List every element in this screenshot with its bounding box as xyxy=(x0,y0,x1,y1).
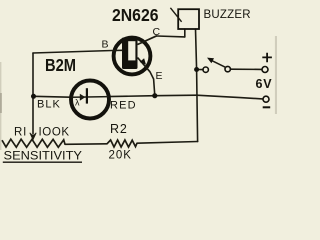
svg-text:BUZZER: BUZZER xyxy=(204,9,251,21)
svg-text:B2M: B2M xyxy=(45,55,76,75)
svg-text:RED: RED xyxy=(110,100,137,112)
underline of SENSITIVITY xyxy=(3,161,82,163)
wire: bottom rail from corner to R2 xyxy=(137,142,198,144)
photocell cell triangle xyxy=(80,94,86,101)
photocell B2M circle xyxy=(71,81,109,119)
svg-text:SENSITIVITY: SENSITIVITY xyxy=(4,151,83,163)
switch contact 1 xyxy=(203,67,208,72)
scan smudge left edge xyxy=(0,62,1,150)
svg-text:λ: λ xyxy=(75,98,80,108)
minus sign xyxy=(263,106,271,108)
wire: buzzer right lead / right vertical rail xyxy=(196,29,198,142)
transistor collector lead xyxy=(138,36,158,45)
svg-text:2N626: 2N626 xyxy=(112,5,159,25)
battery plus terminal xyxy=(262,67,268,73)
wire: emitter lead down from transistor xyxy=(150,72,155,96)
transistor base lead xyxy=(113,49,123,51)
photocell internal wire xyxy=(72,96,109,99)
svg-text:R2: R2 xyxy=(110,122,128,136)
plus sign xyxy=(262,53,272,63)
potentiometer wiper arrow of R1 xyxy=(30,133,36,140)
buzzer armature line xyxy=(170,8,181,22)
wire: switch to plus terminal xyxy=(231,68,262,70)
wire: switch stub from rail dot to first contact xyxy=(197,69,203,71)
wire: buzzer left lead xyxy=(184,29,186,37)
wire: BLK lead from rail to photocell xyxy=(34,95,71,98)
svg-text:IOOK: IOOK xyxy=(39,127,70,139)
svg-text:BLK: BLK xyxy=(37,99,61,111)
junction dot base/BLK node xyxy=(31,94,36,99)
resistor R1 zigzag xyxy=(2,139,65,147)
switch arm with arrowhead xyxy=(212,60,227,67)
svg-text:B: B xyxy=(102,39,109,51)
svg-text:20K: 20K xyxy=(109,150,132,162)
wire: collector horizontal to buzzer left lead xyxy=(157,35,185,38)
resistor R2 zigzag xyxy=(107,140,137,147)
junction dot switch node xyxy=(194,67,199,72)
wire: top rail from left corner to transistor base xyxy=(33,51,112,54)
buzzer box xyxy=(178,9,199,29)
transistor emitter lead with arrow xyxy=(138,58,151,72)
wire: rail from crossing to minus terminal xyxy=(197,95,263,99)
junction dot emitter node xyxy=(152,93,157,98)
svg-text:C: C xyxy=(153,26,161,38)
switch contact 2 xyxy=(225,66,230,71)
svg-text:6V: 6V xyxy=(256,77,273,91)
transistor Q1 circle xyxy=(114,38,151,75)
photocell cell bar xyxy=(86,88,88,103)
svg-text:E: E xyxy=(156,70,163,82)
wire: R2 to R1 link xyxy=(65,143,107,146)
scan smudge right edge xyxy=(275,36,277,114)
wire: RED lead / emitter rail to crossing xyxy=(108,95,197,96)
paper background xyxy=(0,0,277,165)
svg-text:RI: RI xyxy=(14,127,27,139)
transistor base bar (filled with white window) xyxy=(122,38,138,70)
battery minus terminal xyxy=(263,96,269,102)
wire: left vertical rail (base / wiper rail) xyxy=(32,53,34,134)
